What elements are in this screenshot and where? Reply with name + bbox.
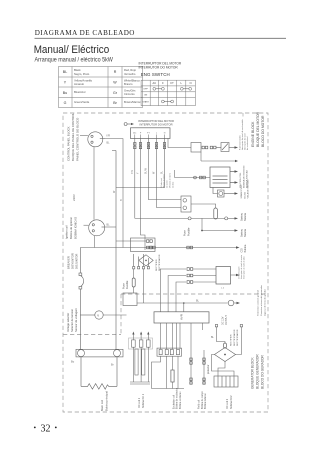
svg-text:OUTPUT: OUTPUT xyxy=(225,315,228,325)
svg-text:CONTROL PANEL BLOCK: CONTROL PANEL BLOCK xyxy=(67,126,71,161)
strip output wires xyxy=(152,356,185,388)
svg-text:Y: Y xyxy=(137,172,140,174)
svg-text:BLOQUE DEL PANEL DE CONTROL: BLOQUE DEL PANEL DE CONTROL xyxy=(71,113,75,161)
switch wire 4 (oil unit) xyxy=(157,139,182,208)
svg-text:BL/W: BL/W xyxy=(145,167,148,174)
wire receptacle2 right pin to bus xyxy=(105,226,116,228)
ground wire BL xyxy=(137,302,228,304)
svg-text:Black: Black xyxy=(74,68,81,72)
svg-text:Branco: Branco xyxy=(124,82,133,86)
fuel level switch label xyxy=(238,118,249,150)
wire colour code table xyxy=(59,67,143,108)
oil alert unit label xyxy=(160,172,175,188)
svg-text:Brown/Marron: Brown/Marron xyxy=(124,100,141,104)
fuel sender box xyxy=(191,143,201,153)
svg-text:BLOQUE DEL MOTOR: BLOQUE DEL MOTOR xyxy=(256,111,260,147)
svg-text:BL: BL xyxy=(161,170,164,174)
panel fuse xyxy=(132,278,135,287)
resistor arrows up xyxy=(133,335,148,340)
svg-text:Ignition coil: Ignition coil xyxy=(65,225,69,239)
svg-text:Bobina principal: Bobina principal xyxy=(105,391,109,411)
DC coil 2 box xyxy=(214,376,238,387)
ignition feed wire xyxy=(175,177,211,179)
condenser element xyxy=(171,370,174,382)
svg-text:BOBINA DE IGNICION: BOBINA DE IGNICION xyxy=(242,165,245,188)
panel rectifier diamond xyxy=(133,254,154,269)
AVR box xyxy=(154,312,209,323)
svg-text:L: L xyxy=(156,133,158,135)
battery labels xyxy=(240,212,247,237)
svg-text:Bobina de campo: Bobina de campo xyxy=(202,390,204,409)
svg-text:RECTIFIER: RECTIFIER xyxy=(231,334,233,346)
panel rectifier box xyxy=(131,238,156,252)
svg-text:DIAGRAMA DE CABLEADO: DIAGRAMA DE CABLEADO xyxy=(35,29,135,37)
svg-text:de oleo: de oleo xyxy=(172,182,174,188)
DC output leads xyxy=(215,325,242,355)
svg-text:Unidad de alerta: Unidad de alerta xyxy=(163,173,166,188)
DC coil 1 label xyxy=(138,393,145,408)
bus top stub xyxy=(112,150,116,152)
svg-text:Yellow/Amarillo: Yellow/Amarillo xyxy=(74,78,93,82)
svg-text:ON: ON xyxy=(144,95,148,97)
wire receptacle1 bottom pin down xyxy=(93,147,95,220)
svg-text:AVR: AVR xyxy=(180,313,184,320)
svg-text:RECTIFICADOR: RECTIFICADOR xyxy=(236,329,239,346)
ignition coil label (panel) xyxy=(65,217,78,239)
svg-text:INTERRUTOR DO MOTOR: INTERRUTOR DO MOTOR xyxy=(139,66,179,70)
wire receptacle2 bottom pin down xyxy=(94,236,96,248)
svg-text:G: G xyxy=(64,101,67,105)
ground symbol with arrow (top) xyxy=(124,123,131,126)
AC receptacle 1 xyxy=(88,132,105,147)
svg-text:Excitation coil: Excitation coil xyxy=(172,394,175,409)
breaker xyxy=(79,248,84,350)
wire from receptacle1 to bus x=123 xyxy=(105,139,123,248)
breaker label xyxy=(67,253,79,269)
oil drain wire xyxy=(201,152,235,161)
oil level switch risers xyxy=(160,269,186,312)
svg-text:Unidade de alerta: Unidade de alerta xyxy=(169,172,172,188)
battery wire 2 xyxy=(202,218,235,230)
svg-text:Ligacao de terra do gerador: Ligacao de terra do gerador xyxy=(264,289,267,316)
svg-text:RECTIFICADOR: RECTIFICADOR xyxy=(233,329,236,346)
control panel block right dashed edge xyxy=(120,294,122,335)
svg-text:Blue/Azul: Blue/Azul xyxy=(74,90,86,94)
svg-text:Red, Rojo: Red, Rojo xyxy=(124,68,136,72)
svg-text:Fuse: Fuse xyxy=(182,230,186,236)
svg-text:BLOQUE GENERADOR: BLOQUE GENERADOR xyxy=(256,354,260,389)
svg-text:Fusible: Fusible xyxy=(125,280,129,289)
switch wire labels xyxy=(131,167,164,174)
svg-text:Oil alert unit: Oil alert unit xyxy=(160,177,163,188)
CDI label xyxy=(240,244,247,252)
battery wire 1 xyxy=(135,217,235,220)
main bus wire x=116 xyxy=(115,151,117,350)
protector wires xyxy=(191,350,204,384)
engine switch terminals xyxy=(135,135,165,139)
svg-text:BREAKER: BREAKER xyxy=(67,256,71,269)
svg-text:Bobina: Bobina xyxy=(244,244,247,252)
ignition coil label xyxy=(240,165,249,188)
svg-text:DC coil 1: DC coil 1 xyxy=(138,397,141,408)
DC 12V output label xyxy=(221,315,228,325)
generator terminal strip xyxy=(157,348,182,356)
ignition wire connector xyxy=(194,176,197,179)
svg-text:VELA DE IGNICAO: VELA DE IGNICAO xyxy=(247,179,250,198)
svg-text:N: N xyxy=(190,81,192,85)
AVR bottom wires xyxy=(161,323,203,350)
svg-text:Y: Y xyxy=(64,80,67,84)
svg-text:BLOCO DO GERADOR: BLOCO DO GERADOR xyxy=(261,354,265,389)
header rule xyxy=(35,37,287,39)
voltage selector label xyxy=(66,307,78,332)
engine ground screw xyxy=(228,300,234,306)
svg-text:DISYUNTOR: DISYUNTOR xyxy=(71,253,75,269)
field coil label xyxy=(199,390,208,409)
CDI wire connector xyxy=(150,246,193,249)
svg-text:CDI: CDI xyxy=(240,248,243,253)
svg-text:R: R xyxy=(114,70,117,74)
svg-text:Bobina de excitacion: Bobina de excitacion xyxy=(176,387,179,409)
fuel level switch wire xyxy=(168,139,191,148)
panel rectifier connectors xyxy=(147,240,153,249)
engine block label xyxy=(251,111,265,147)
fuse label xyxy=(182,227,190,236)
generator block partition dashed line xyxy=(121,293,268,295)
control panel block label xyxy=(67,113,80,161)
svg-text:BL: BL xyxy=(63,70,67,74)
oil level switch label xyxy=(238,255,246,279)
switch wire 1 (battery feed) xyxy=(134,139,136,219)
oil level wire connectors xyxy=(187,268,193,284)
control panel block bottom dashed edge xyxy=(63,334,121,336)
svg-text:Main coil: Main coil xyxy=(100,400,104,411)
engine switch contact table xyxy=(141,80,195,105)
panel rectifier feed wires xyxy=(116,240,146,242)
svg-text:Battery: Battery xyxy=(240,212,243,221)
rectifier diamond xyxy=(215,348,236,362)
wire stub into receptacle 1 xyxy=(80,135,88,137)
svg-text:Green/Verde: Green/Verde xyxy=(74,100,90,104)
fuse to battery xyxy=(191,204,216,208)
svg-text:Bu: Bu xyxy=(63,91,67,95)
panel fuse label xyxy=(121,280,129,289)
svg-text:Arranque manual / eléctrico 5k: Arranque manual / eléctrico 5kW xyxy=(35,57,114,63)
svg-text:Bobina inducao: Bobina inducao xyxy=(205,392,207,409)
CDI arrowhead xyxy=(236,246,240,248)
svg-text:de combustivel: de combustivel xyxy=(246,136,249,150)
svg-text:BUJIA: BUJIA xyxy=(243,192,246,199)
switch contact symbols OFF row xyxy=(153,87,192,103)
switch wire 2 (rectifier feed) xyxy=(141,139,146,251)
svg-text:•: • xyxy=(34,423,37,432)
long CDI wire across panel xyxy=(80,247,236,249)
svg-text:Bateria: Bateria xyxy=(244,212,247,221)
svg-text:W: W xyxy=(113,190,116,193)
svg-text:BL: BL xyxy=(196,300,200,303)
main coil zigzag xyxy=(81,384,117,390)
svg-text:Cinzento: Cinzento xyxy=(124,92,135,96)
svg-text:32: 32 xyxy=(41,424,51,435)
main coil label xyxy=(100,391,109,411)
svg-text:SPARK PLUG: SPARK PLUG xyxy=(240,184,243,198)
svg-text:Generator connect ground: Generator connect ground xyxy=(257,290,260,316)
svg-text:W: W xyxy=(113,80,117,84)
svg-text:Field coil: Field coil xyxy=(199,399,201,409)
switch wire 5 (to bus) xyxy=(116,139,165,188)
svg-text:RECTIFIER: RECTIFIER xyxy=(156,259,158,271)
svg-text:Conexion a tierra del generado: Conexion a tierra del generador xyxy=(260,285,263,316)
condenser label xyxy=(172,387,182,409)
switch wire connectors xyxy=(134,143,166,149)
svg-text:Y/R: Y/R xyxy=(106,135,110,138)
panel rectifier label xyxy=(156,254,161,271)
svg-text:L: L xyxy=(180,81,182,85)
svg-text:PAINEL CONTROLO DO BLOCO: PAINEL CONTROLO DO BLOCO xyxy=(76,117,80,161)
svg-text:Amarelo: Amarelo xyxy=(74,82,85,86)
svg-text:FT: FT xyxy=(171,81,175,85)
svg-text:Negro, Preto: Negro, Preto xyxy=(74,72,90,76)
switch contact symbols START row xyxy=(162,100,165,103)
charge resistor bank xyxy=(129,338,153,349)
DC coil 1 windings xyxy=(130,347,150,384)
svg-text:Gr: Gr xyxy=(113,91,118,95)
frame tick xyxy=(242,113,244,117)
svg-text:Selector de tension: Selector de tension xyxy=(70,308,74,332)
svg-text:START: START xyxy=(142,101,149,104)
svg-text:W: W xyxy=(153,171,156,174)
main coil winding loop xyxy=(81,357,117,389)
DC coil 2 label xyxy=(226,395,233,409)
svg-text:Bu: Bu xyxy=(71,360,75,364)
svg-text:Vermelho: Vermelho xyxy=(124,72,136,76)
svg-text:OFF: OFF xyxy=(143,89,148,91)
svg-text:•: • xyxy=(55,423,58,432)
fuse symbol xyxy=(214,208,218,219)
oil alert unit box xyxy=(181,196,191,212)
receptacle 2 left stub xyxy=(84,224,89,226)
spark plug label xyxy=(240,179,250,198)
svg-text:FT: FT xyxy=(147,133,150,135)
svg-text:AC: AC xyxy=(133,132,136,135)
svg-text:BLOCO DO MOTOR: BLOCO DO MOTOR xyxy=(261,115,265,147)
svg-text:DISJUNTOR: DISJUNTOR xyxy=(75,254,79,269)
svg-text:BL: BL xyxy=(107,224,111,227)
svg-text:Bobina DC 1: Bobina DC 1 xyxy=(142,393,145,408)
svg-text:Bobina excitacao: Bobina excitacao xyxy=(179,391,182,409)
svg-text:BOBINA IGNICAO: BOBINA IGNICAO xyxy=(74,217,78,239)
ignition coil (engine) xyxy=(210,167,235,188)
output terminal block xyxy=(76,349,123,357)
svg-text:INTERRUPTOR DEL MOTOR: INTERRUPTOR DEL MOTOR xyxy=(138,119,174,123)
svg-text:ENG SWITCH: ENG SWITCH xyxy=(141,72,170,77)
svg-text:GENERATOR BLOCK: GENERATOR BLOCK xyxy=(251,357,255,389)
svg-text:Br: Br xyxy=(113,101,117,105)
CDI unit box xyxy=(123,293,137,306)
voltmeter xyxy=(80,311,126,319)
svg-text:Manual/ Eléctrico: Manual/ Eléctrico xyxy=(34,43,110,56)
AC receptacle 2 xyxy=(89,220,105,236)
svg-text:F: F xyxy=(140,133,142,135)
svg-text:N: N xyxy=(164,133,166,135)
ground label xyxy=(257,285,267,316)
svg-text:de aceite: de aceite xyxy=(166,180,169,188)
svg-text:F: F xyxy=(162,81,164,85)
svg-text:Voltage selector: Voltage selector xyxy=(66,313,70,332)
svg-text:Y/R: Y/R xyxy=(131,170,134,174)
svg-text:ENGINE BLOCK: ENGINE BLOCK xyxy=(251,121,255,147)
oil level switch box xyxy=(216,267,231,285)
svg-text:AC: AC xyxy=(152,81,156,85)
svg-text:Battery: Battery xyxy=(240,228,243,237)
DC coil 2 wires xyxy=(212,355,235,377)
svg-text:L.2: L.2 xyxy=(221,288,225,290)
protector connectors xyxy=(190,358,205,384)
fuel switch box xyxy=(216,143,235,152)
rectifier label xyxy=(231,329,240,346)
generator block label xyxy=(251,354,265,389)
svg-text:Bobina de ignicion: Bobina de ignicion xyxy=(69,217,73,239)
spark plug xyxy=(213,188,235,198)
svg-text:Fusible: Fusible xyxy=(186,227,190,236)
svg-text:Bateria: Bateria xyxy=(244,228,247,237)
svg-text:RECTIFICADOR: RECTIFICADOR xyxy=(158,254,161,271)
svg-text:v: v xyxy=(97,314,99,318)
oil level switch arrow xyxy=(231,274,237,276)
svg-text:DC coil 2: DC coil 2 xyxy=(226,398,229,409)
svg-text:B: B xyxy=(120,199,123,201)
rectifier output wires down xyxy=(134,269,144,303)
outer block dashed frame xyxy=(63,113,268,412)
svg-text:220V: 220V xyxy=(72,194,76,201)
svg-text:BL: BL xyxy=(107,142,111,145)
svg-text:BL: BL xyxy=(211,337,215,339)
svg-text:protector: protector xyxy=(207,364,210,374)
svg-text:Sensor de voltagem: Sensor de voltagem xyxy=(74,307,78,332)
svg-text:INTERRUTOR DO MOTOR: INTERRUTOR DO MOTOR xyxy=(139,123,172,127)
svg-text:Br: Br xyxy=(111,363,114,367)
svg-text:White/Blanco: White/Blanco xyxy=(124,78,140,82)
svg-text:Bobina DC2: Bobina DC2 xyxy=(230,395,233,409)
svg-text:Interruptor do nivel de oleo: Interruptor do nivel de oleo xyxy=(243,257,246,280)
svg-text:Grey/Gris: Grey/Gris xyxy=(124,88,136,92)
fuel switch connectors xyxy=(202,146,216,149)
svg-text:Fuse: Fuse xyxy=(121,283,125,289)
engine switch box xyxy=(131,128,171,139)
switch wire 3 (oil unit) xyxy=(149,139,182,200)
